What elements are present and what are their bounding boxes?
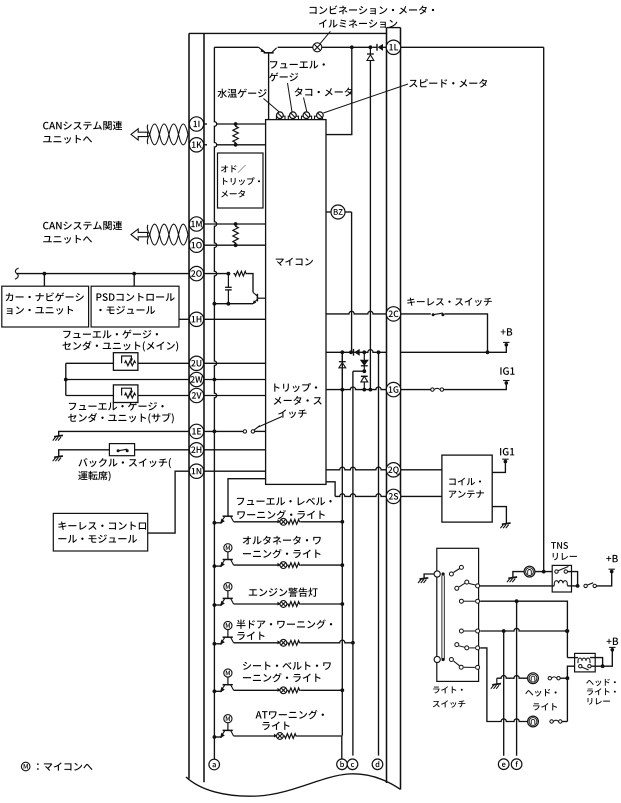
port e: [498, 759, 509, 770]
port 2V: [189, 388, 203, 402]
wire node to +B: [603, 651, 613, 666]
wire buckle to ground: [59, 450, 110, 457]
diode D2 below node T: [367, 55, 374, 61]
label +B headlight: [607, 639, 612, 644]
wire 2S row: [335, 494, 386, 497]
port 1L: [386, 40, 400, 54]
port 1O: [189, 238, 203, 252]
node R2 top: [234, 222, 238, 226]
fuel sender sub symbol: [113, 385, 137, 403]
right bus cap: [387, 27, 401, 29]
arrow to CAN 1: [131, 129, 148, 140]
wire collector to lamp row 3: [234, 603, 280, 605]
wire 2V row: [66, 395, 114, 397]
port 1H: [189, 312, 203, 326]
port c: [347, 759, 358, 770]
port 1N: [189, 464, 203, 478]
ground sym light switch: [420, 578, 429, 579]
label fuel sender sub: [69, 403, 76, 410]
node emitter row 3: [213, 603, 217, 607]
label buckle switch: [78, 458, 87, 466]
node emitter row 2: [213, 564, 217, 568]
outer frame top edge: [189, 32, 387, 34]
node b-line row 5: [340, 688, 344, 692]
port 1M: [189, 217, 203, 231]
sender link vertical: [65, 363, 67, 395]
buzzer BZ: [331, 205, 345, 219]
wire 1O to micon: [204, 244, 266, 246]
lamp combination meter illumination: [313, 43, 322, 52]
node cap-emitter: [227, 302, 231, 306]
wire 2V to micon: [204, 395, 266, 397]
wire hl coil right: [590, 658, 603, 665]
wire collector to lamp row 5: [234, 689, 280, 691]
wire BZ line down: [351, 212, 353, 352]
torn-page wave bottom edge: [186, 774, 401, 796]
keyless control module box: [53, 513, 147, 551]
label keyless control module: [58, 522, 66, 531]
ls rowA contacts: [459, 599, 463, 603]
wire collector to lamp row 4: [234, 642, 280, 644]
node D2-1G junction: [369, 388, 373, 392]
node rowB right: [565, 629, 569, 633]
port 1K: [189, 138, 203, 152]
node 1G d-pair: [362, 388, 366, 392]
wire zener line: [341, 352, 343, 361]
diode D1 at 1L: [376, 44, 378, 51]
pointer illumination label: [320, 31, 330, 43]
transistor Q8 row 6: [223, 729, 233, 731]
wire micon to Q3 base: [228, 479, 266, 517]
port 1E: [189, 424, 203, 438]
ground bus vertical wire: [214, 47, 216, 759]
wire 1E right: [204, 430, 244, 432]
wire rowB: [480, 628, 566, 631]
TNS relay coil: [554, 580, 567, 583]
resistor R3: [233, 271, 247, 276]
wire node T diode line: [369, 47, 371, 54]
wire 1I to micon: [217, 123, 266, 125]
resistor row 2: [287, 563, 301, 568]
wire 1G row: [326, 387, 387, 390]
gauge mounting tabs: [276, 116, 285, 119]
wire 2H to buckle: [135, 449, 190, 451]
wire keyless switch to +B: [444, 314, 487, 352]
label fuel gauge: [270, 61, 277, 68]
resistor row 3: [287, 602, 301, 607]
wire 2C row: [326, 311, 387, 314]
ignition switch S4: [431, 388, 434, 391]
wire ig switch to IG1: [444, 384, 507, 389]
resistor R1 CAN terminator: [233, 124, 238, 145]
node R1 bottom: [234, 143, 238, 147]
node emitter-gv: [213, 302, 217, 306]
ls rowB contacts: [459, 629, 463, 633]
wire emitter row 2: [214, 565, 222, 567]
wire contact right: [568, 572, 578, 585]
node 1C zener: [340, 350, 344, 354]
wire d-pair segs: [363, 352, 365, 360]
node 1E ground bus: [213, 430, 217, 434]
terminal +B keyless: [505, 343, 509, 347]
warning lamp row 5: [280, 687, 287, 694]
node illumination feed: [542, 570, 546, 574]
node door ajar: [351, 641, 355, 645]
wire 2W row: [66, 379, 190, 381]
node TNS out: [576, 584, 580, 588]
port 1I: [189, 117, 203, 131]
node 2W ground bus: [213, 378, 217, 382]
odo trip meter box: [218, 153, 264, 208]
wire coil to ground: [492, 507, 506, 524]
transistor Q3 row 1: [223, 515, 233, 517]
ground sym buckle: [54, 456, 63, 457]
wire BZ right: [345, 211, 352, 213]
label psd module: [96, 293, 101, 300]
wire S8 to node: [560, 677, 567, 679]
hl switch S9: [550, 720, 553, 723]
wire keyless to 1N: [148, 471, 190, 533]
node 2W link: [64, 378, 68, 382]
wire 2U to micon: [204, 362, 266, 364]
wire 1K to micon: [217, 144, 266, 146]
label headlight: [525, 690, 533, 695]
wire 2W to micon: [204, 379, 266, 381]
wire to hl coil: [567, 657, 578, 659]
label +B keyless: [501, 329, 506, 334]
label headlight relay: [586, 680, 593, 685]
wire 1L to far right: [401, 46, 544, 48]
wire lamp2 to 567: [560, 721, 567, 723]
ground sym TNS lamp: [508, 577, 517, 578]
diode D4: [361, 360, 368, 365]
pointer trip switch: [258, 417, 282, 428]
transistor Q1 (illumination driver): [264, 52, 274, 54]
terminal IG1 meter: [505, 381, 509, 385]
transistor Q4 row 2: [223, 559, 233, 561]
wire 1N to micon: [204, 470, 266, 472]
label door ajar warning light: [237, 620, 246, 629]
wire Q1 base to micon: [268, 54, 270, 120]
micon symbol M row 2: [224, 544, 232, 552]
label coil antenna: [449, 479, 456, 486]
diode D5: [361, 376, 368, 382]
label water temp gauge: [217, 89, 227, 98]
wire psd to 1H: [179, 318, 190, 320]
wire emitter row 6: [214, 736, 222, 738]
wire 1C to +B: [401, 346, 507, 352]
wire 2S to coil box: [401, 495, 442, 497]
node illumination feedback: [350, 45, 354, 49]
label +B TNS: [606, 556, 611, 561]
TNS +B switch S6: [584, 584, 587, 587]
wire collector to lamp row 2: [234, 564, 280, 566]
ground sym 1E: [54, 435, 63, 436]
warning lamp row 6: [277, 733, 284, 740]
wire switch row to coil: [479, 585, 554, 587]
wire 1M to micon: [204, 223, 266, 225]
wire illumination feedback to micon: [326, 47, 352, 134]
wire resistor to Q2 collector: [247, 274, 253, 293]
gauge fuel: [290, 112, 297, 119]
node rc: [227, 272, 231, 276]
wire lamp to b-line row 1: [301, 521, 343, 523]
node R2 bottom: [234, 243, 238, 247]
light switch box: [437, 548, 479, 681]
label fuel sender main: [63, 331, 70, 338]
twisted pair CAN 1: [150, 124, 188, 145]
twisted pair CAN 2: [150, 224, 188, 245]
ground sym coil: [502, 523, 511, 524]
wire c-line down: [352, 371, 354, 755]
warning lamp row 2: [280, 562, 287, 569]
headlight relay box: [575, 653, 596, 672]
TNS relay box: [552, 565, 571, 592]
right bus line inner: [386, 28, 388, 783]
wire 2Q row: [326, 467, 387, 470]
label TNS relay: [551, 542, 556, 549]
break squiggle 2O stub: [15, 268, 19, 279]
wire rowA: [480, 601, 567, 631]
wire M to base row 3: [227, 591, 229, 599]
coil antenna box: [442, 455, 492, 522]
wire d-line down: [378, 352, 380, 755]
wire 1C row: [326, 350, 387, 353]
transistor Q6 row 4: [223, 636, 233, 638]
resistor row 4: [287, 640, 301, 645]
wire 1G to ig switch: [401, 389, 431, 391]
wire rowC: [480, 648, 494, 722]
transistor Q5 row 3: [223, 597, 233, 599]
ls gang link: [441, 575, 443, 659]
micon box: [266, 120, 326, 485]
port 2C: [386, 307, 400, 321]
pointer fuel gauge: [288, 83, 293, 112]
wire 2S jog: [326, 482, 335, 497]
wire emitter row 1: [214, 522, 222, 524]
left bus line inner: [203, 33, 205, 782]
label micon: [276, 259, 284, 266]
label alternator warning light: [243, 536, 251, 544]
terminal IG1 coil: [504, 460, 508, 464]
zener Z1: [339, 363, 346, 368]
port 2S: [386, 489, 400, 503]
buckle switch S2: [117, 449, 120, 452]
node hl relay out: [601, 664, 605, 668]
wire 2O to units: [17, 273, 190, 275]
wire mid to c-line: [353, 370, 364, 372]
pointer tachometer: [304, 98, 307, 112]
wire collector to lamp row 1: [234, 521, 280, 523]
legend micon M: [21, 762, 30, 771]
label light switch: [433, 687, 439, 694]
wire down to nav unit: [43, 274, 45, 287]
wire e-line: [503, 631, 505, 756]
node T junction: [369, 45, 373, 49]
micon symbol M row 5: [224, 669, 232, 677]
psd control module box: [91, 286, 179, 327]
wire lamp to b-line row 5: [301, 689, 343, 691]
ls common top: [434, 571, 440, 577]
wire ls common to ground: [424, 574, 434, 578]
resistor row 6: [283, 734, 297, 739]
node ls link top: [442, 572, 445, 575]
port d: [372, 759, 383, 770]
wire 2O to rc node: [204, 273, 229, 275]
label CAN system units 1: [43, 122, 49, 130]
wire 2U row: [66, 362, 114, 364]
wire micon to BZ: [326, 211, 331, 213]
wire f-line: [516, 601, 518, 756]
right bus line outer: [400, 28, 402, 790]
label seat belt warning light: [243, 662, 251, 670]
wire emitter row 4: [214, 643, 222, 645]
port 1G: [386, 382, 400, 396]
keyless switch S3: [432, 313, 435, 316]
headlight high lamp: [528, 673, 539, 684]
micon symbol M row 4: [224, 621, 232, 629]
ls blade bottom: [449, 658, 453, 662]
node emitter row 1: [213, 521, 217, 525]
wire rowC hops: [494, 719, 528, 722]
warning lamp row 1: [280, 518, 287, 525]
node emitter row 5: [213, 689, 217, 693]
ls rowC contacts: [455, 643, 459, 647]
TNS relay contact S5: [555, 570, 558, 573]
wire b-line down: [341, 352, 343, 735]
wire M to base row 2: [227, 552, 229, 560]
node hl lamp row: [566, 676, 570, 680]
label tachometer: [294, 88, 302, 97]
far right illumination feed wire: [543, 47, 545, 571]
wire M to base row 6: [227, 723, 229, 731]
ls common bottom: [434, 656, 440, 662]
transistor Q2: [256, 294, 258, 302]
wire S1 to micon: [255, 430, 266, 432]
fuel sender main symbol: [113, 353, 137, 371]
node keyless join: [486, 350, 490, 354]
gauge water temperature: [277, 112, 284, 119]
wire ground to lamp TNS: [513, 572, 525, 578]
gauge speedometer: [317, 112, 324, 119]
wire M to base row 5: [227, 677, 229, 685]
label speedometer: [409, 80, 417, 88]
ground sym headlight: [496, 678, 498, 684]
wire lamp to relay: [535, 571, 553, 573]
wire hl contact left: [567, 666, 574, 678]
node psd stub: [132, 272, 136, 276]
wire AT to b corner: [297, 736, 342, 760]
headlight relay coil: [578, 658, 590, 661]
diode D3 on 1C: [353, 349, 355, 356]
wire emitter row 3: [214, 604, 222, 606]
warning lamp row 3: [280, 601, 287, 608]
node 1C dline: [377, 350, 381, 354]
port 2H: [189, 443, 203, 457]
left bus line outer: [188, 33, 190, 778]
wire Q1 collector to 1L: [278, 46, 313, 48]
wire node T to diode D1: [372, 46, 377, 48]
node rowB eline: [502, 629, 506, 633]
wire Q2 emitter: [214, 303, 252, 305]
wire S6 to +B: [596, 573, 611, 586]
legend text: [37, 763, 39, 770]
node 1C d-pair: [362, 350, 366, 354]
transistor Q7 row 5: [223, 684, 233, 686]
node 1G zener: [340, 388, 344, 392]
label fuel level warning light: [237, 498, 244, 505]
port 2U: [189, 356, 203, 370]
wire door ajar to c-line: [301, 640, 353, 643]
hl relay contact S7: [579, 665, 582, 668]
node b-line row 2: [340, 563, 344, 567]
node emitter row 4: [213, 642, 217, 646]
wire down to psd module: [133, 274, 135, 287]
terminal +B headlight: [611, 648, 615, 652]
car navigation unit box: [2, 286, 89, 327]
port b: [337, 759, 348, 770]
wire collector to lamp row 6: [234, 735, 277, 737]
micon symbol M row 6: [224, 715, 232, 723]
node b-line row 3: [340, 602, 344, 606]
label CAN system units 2: [43, 222, 49, 230]
wire coil to IG1: [492, 463, 505, 472]
wire coil to node: [567, 585, 577, 587]
ls blade top: [449, 572, 453, 576]
wire 1H to micon: [204, 318, 266, 320]
warning lamp row 4: [280, 639, 287, 646]
wire meter supply top: [214, 46, 258, 48]
micon symbol M row 3: [224, 583, 232, 591]
node 567 row: [566, 629, 570, 633]
resistor row 5: [287, 688, 301, 693]
wire 567 down: [566, 631, 568, 658]
wire 2Q to coil box: [401, 469, 442, 471]
terminal +B TNS: [610, 570, 614, 574]
ls TNS row contacts: [455, 586, 459, 590]
wire M to base row 4: [227, 630, 229, 638]
node nav stub: [43, 272, 47, 276]
port 2O: [189, 266, 203, 280]
pointer speedometer: [323, 84, 408, 113]
label trip meter switch: [274, 383, 279, 391]
buckle switch box: [109, 444, 134, 456]
label keyless switch: [407, 298, 415, 306]
TNS illumination lamp: [524, 566, 535, 577]
resistor row 1: [287, 519, 301, 524]
wire emitter row 5: [214, 690, 222, 692]
port 2W: [189, 372, 203, 386]
trip meter switch S1: [243, 430, 246, 433]
port a: [209, 759, 220, 770]
node b-line row 1: [340, 520, 344, 524]
label IG1 meter: [500, 367, 501, 374]
node d-pair mid: [362, 369, 366, 373]
label combination meter illumination: [310, 7, 317, 14]
wire lamp to node T: [322, 46, 371, 48]
label IG1 coil: [500, 448, 501, 455]
label engine warning light: [249, 589, 257, 596]
wire 2H to micon: [204, 449, 266, 451]
node ls link bottom: [442, 658, 445, 661]
wire lamp to b-line row 2: [301, 564, 343, 566]
capacitor C1: [225, 286, 232, 288]
wire lamp to b-line row 3: [301, 603, 343, 605]
port f: [511, 759, 522, 770]
gauge tachometer: [303, 112, 310, 119]
wire 2C to switch: [401, 313, 431, 315]
wire 567 down 2: [566, 678, 568, 721]
